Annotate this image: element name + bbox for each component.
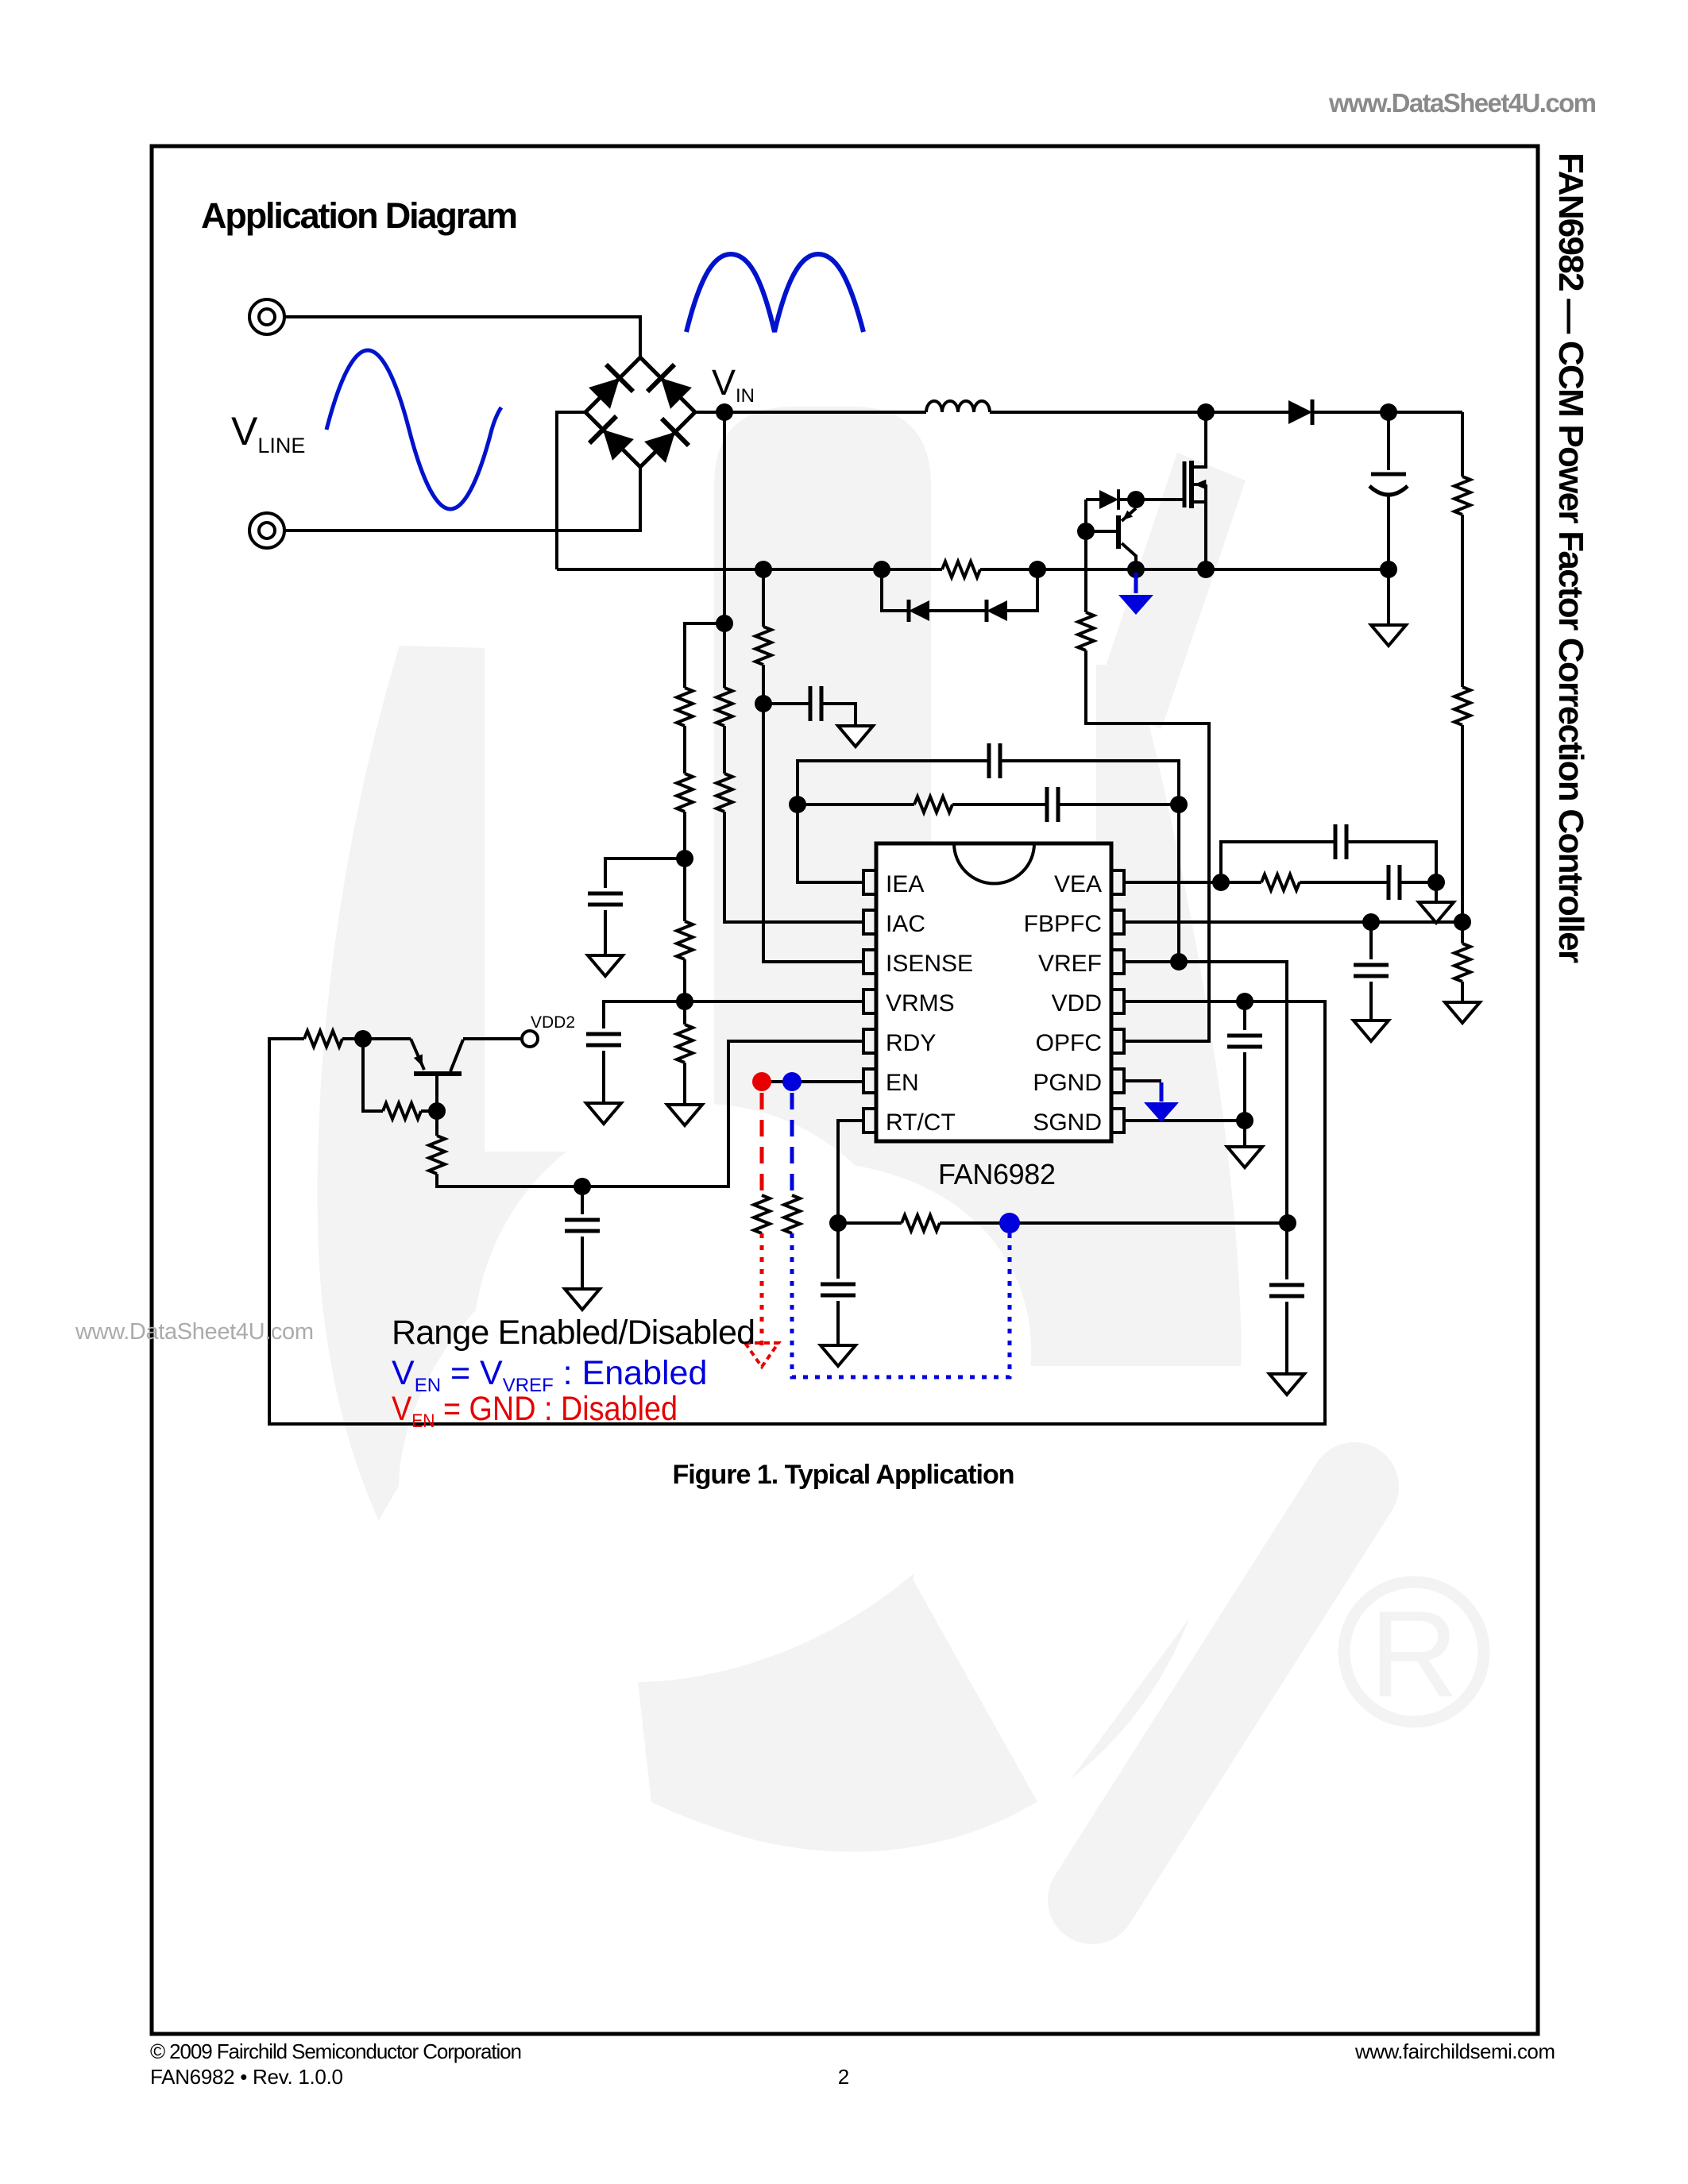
page frame	[152, 146, 1538, 2034]
watermark registered mark	[1344, 1582, 1484, 1723]
svg-text:www.DataSheet4U.com: www.DataSheet4U.com	[1328, 88, 1597, 118]
ground VEA	[1419, 902, 1454, 923]
node RDY cap	[574, 1178, 591, 1195]
resistor Riac2	[717, 774, 732, 812]
capacitor Cref	[1269, 1285, 1304, 1296]
node VIN	[716, 403, 733, 421]
pin VRMS box	[863, 990, 876, 1013]
wire VIN node to left divider	[685, 623, 724, 1105]
resistor Riac1	[717, 688, 732, 726]
capacitor Cvr1	[588, 893, 623, 905]
capacitor Crdy	[565, 1220, 600, 1231]
pin FBPFC box	[1111, 910, 1124, 934]
pin IAC box	[863, 910, 876, 934]
resistor Re2	[784, 1195, 800, 1233]
wire bridge left corner to bus	[557, 412, 585, 569]
wire gate diode to gate node	[1118, 500, 1136, 508]
diode D7 bypass	[987, 600, 1007, 622]
transistor Q2 emitter	[1122, 508, 1136, 521]
resistor Rvr1	[677, 688, 693, 726]
node VREF-RT	[1279, 1214, 1296, 1232]
resistor Rc	[304, 1031, 342, 1047]
diode D6 bypass	[909, 600, 929, 622]
node VDD cap	[1236, 993, 1253, 1010]
pin VDD box	[1111, 990, 1124, 1013]
node left divider mid	[676, 850, 693, 867]
svg-text:VDD2: VDD2	[531, 1013, 575, 1032]
node VEA left	[1212, 874, 1230, 891]
node FBPFC divider	[1454, 913, 1471, 931]
wire Q3 base network	[363, 1039, 437, 1136]
svg-text:VLINE: VLINE	[231, 409, 305, 457]
transistor Q2 base wire	[1086, 530, 1118, 533]
node IEA comp left	[789, 796, 806, 813]
node bus 4	[1127, 561, 1145, 578]
wire PGND stub	[1124, 1079, 1161, 1082]
mosfet Q1 arrow	[1194, 480, 1206, 490]
wire EN	[762, 1080, 863, 1083]
node Q3 base	[428, 1102, 446, 1120]
terminal T2	[249, 513, 284, 548]
node VEA right	[1427, 874, 1445, 891]
node bus 5	[1197, 561, 1215, 578]
svg-text:R: R	[1369, 1585, 1458, 1723]
wire RT/CT cap	[836, 1223, 840, 1345]
pin VREF box	[1111, 950, 1124, 974]
ground Cvr1	[588, 955, 623, 976]
blue dashed enable line	[790, 1093, 794, 1194]
svg-text:VRMS: VRMS	[886, 990, 955, 1017]
resistor Ri IEA	[914, 797, 952, 812]
node Rc-Q3	[354, 1030, 372, 1048]
EN blue node	[782, 1072, 802, 1091]
wire VDD cap	[1243, 1001, 1246, 1147]
ground SGND	[1227, 1147, 1262, 1167]
node bus 2	[873, 561, 890, 578]
bridge diode D3 lower-left	[589, 416, 636, 463]
svg-text:SGND: SGND	[1033, 1109, 1102, 1136]
transistor Q3 arrow	[414, 1054, 427, 1068]
wire isense filter cap	[763, 704, 856, 726]
svg-text:Figure 1. Typical Application: Figure 1. Typical Application	[673, 1460, 1015, 1490]
red dashed arrow	[745, 1343, 778, 1367]
wire opfc base resistor	[1086, 500, 1209, 1041]
svg-text:www.DataSheet4U.com: www.DataSheet4U.com	[75, 1319, 314, 1345]
svg-text:Application Diagram: Application Diagram	[201, 195, 518, 236]
svg-text:OPFC: OPFC	[1036, 1030, 1102, 1056]
node VREF-IEA	[1170, 953, 1188, 970]
capacitor Cvr2	[586, 1034, 621, 1045]
resistor Ro2	[1454, 687, 1470, 725]
boost diode D5	[1288, 399, 1312, 425]
transistor Q2 collector	[1122, 543, 1136, 569]
pin RT/CT box	[863, 1109, 876, 1133]
blue dotted enable line	[792, 1233, 1010, 1377]
capacitor Cfb	[1354, 965, 1389, 976]
svg-text:VEA: VEA	[1054, 871, 1102, 897]
transistor Q3 base lead	[435, 1074, 438, 1111]
wire T1 to bridge top	[284, 317, 640, 357]
capacitor Cv2 VEA	[1389, 865, 1400, 900]
transistor Q3 collector diagonal	[450, 1040, 463, 1071]
wire RDY cap	[581, 1187, 584, 1289]
terminal T1	[249, 299, 284, 334]
svg-text:FAN6982: FAN6982	[938, 1158, 1056, 1190]
wire VIN vertical to IAC divider	[724, 412, 863, 922]
resistor Rvr3	[677, 921, 693, 959]
wire bridge right corner to VIN node	[695, 411, 724, 414]
transistor Q2 base bar	[1116, 515, 1121, 549]
resistor Rvr2	[677, 774, 693, 812]
svg-text:RT/CT: RT/CT	[886, 1109, 956, 1136]
svg-text:FBPFC: FBPFC	[1024, 911, 1102, 937]
watermark logo right arm extension	[1095, 453, 1246, 729]
resistor Rsf	[755, 627, 771, 665]
inductor L1	[926, 401, 990, 412]
node gate	[1127, 491, 1145, 508]
resistor Rv VEA	[1261, 874, 1300, 890]
svg-text:VREF: VREF	[1038, 951, 1102, 977]
mosfet Q1 drain	[1192, 412, 1206, 467]
ground Cvr2	[586, 1103, 621, 1124]
node IEA comp right	[1170, 796, 1188, 813]
svg-text:VIN: VIN	[712, 362, 755, 407]
blue rectified sine VIN	[686, 254, 863, 332]
red dashed enable line	[760, 1093, 764, 1194]
bridge diode D1 upper-left	[586, 365, 633, 411]
FAN6982 IC body	[876, 843, 1111, 1141]
resistor Rs sense	[942, 561, 980, 577]
wire VDD row	[269, 1001, 1325, 1424]
ground Crdy	[565, 1289, 600, 1310]
bridge rectifier diamond	[585, 357, 695, 467]
resistor Rb1	[383, 1103, 421, 1119]
node SGND	[1236, 1112, 1253, 1129]
bus current sense rail	[557, 568, 1389, 571]
blue ground arrow PGND	[1160, 1082, 1164, 1102]
bridge diode D4 lower-right	[642, 419, 689, 465]
node VIN divider tap	[716, 615, 733, 632]
capacitor Ct	[821, 1284, 856, 1295]
ground Cfb	[1354, 1021, 1389, 1041]
ground Cref	[1269, 1374, 1304, 1395]
blue current arrow 1	[1134, 573, 1138, 593]
ground Rvr4	[667, 1105, 702, 1125]
red dotted enable line	[760, 1233, 764, 1345]
ground Ct	[821, 1345, 856, 1366]
mosfet Q1 source	[1192, 484, 1206, 569]
bridge diode D2 upper-right	[647, 365, 694, 411]
pin ISENSE box	[863, 950, 876, 974]
pin EN box	[863, 1069, 876, 1093]
mosfet Q1 channel bar	[1189, 461, 1194, 508]
capacitor Ci2 IEA	[1047, 787, 1058, 822]
blue node RT	[999, 1213, 1020, 1233]
watermark white left channel	[485, 604, 714, 1152]
resistor Rt	[902, 1215, 940, 1231]
pin RDY box	[863, 1029, 876, 1053]
watermark white hole	[473, 1104, 933, 1596]
wire FBPFC row	[1124, 920, 1462, 924]
ground Ro3	[1445, 1002, 1480, 1023]
svg-text:IEA: IEA	[886, 871, 924, 897]
IC notch	[954, 843, 1034, 884]
svg-text:VEN = GND : Disabled: VEN = GND : Disabled	[392, 1390, 678, 1432]
resistor Re1	[754, 1195, 770, 1233]
ground Csf	[838, 726, 873, 747]
node bus 3	[1029, 561, 1046, 578]
mosfet Q1 body stub	[1192, 483, 1206, 486]
transistor Q2 arrow	[1120, 511, 1134, 523]
resistor Rg opfc	[1078, 612, 1094, 650]
wire RDY loop	[437, 1041, 863, 1187]
EN red node	[752, 1072, 771, 1091]
wire SGND row	[1124, 1119, 1245, 1122]
wire Q3 collector to VDD2	[463, 1037, 521, 1040]
svg-text:© 2009 Fairchild Semiconductor: © 2009 Fairchild Semiconductor Corporati…	[150, 2039, 522, 2063]
pin VEA box	[1111, 870, 1124, 894]
watermark white right channel	[931, 604, 1096, 1136]
blue sine VLINE	[326, 350, 501, 509]
svg-text:ISENSE: ISENSE	[886, 951, 973, 977]
pin SGND box	[1111, 1109, 1124, 1133]
pin PGND box	[1111, 1069, 1124, 1093]
node FBPFC cap	[1362, 913, 1380, 931]
diode D8 gate	[1099, 489, 1118, 510]
node Q2 base	[1077, 523, 1095, 540]
transistor Q3 base bar	[414, 1071, 462, 1076]
svg-text:Range Enabled/Disabled: Range Enabled/Disabled	[392, 1314, 755, 1352]
capacitor Csf	[810, 686, 821, 721]
ground Cout	[1371, 625, 1406, 646]
transistor Q3 emitter diagonal	[411, 1039, 424, 1070]
svg-text:FAN6982 — CCM Power Factor Cor: FAN6982 — CCM Power Factor Correction Co…	[1551, 152, 1590, 963]
wire top rail VIN to inductor	[724, 411, 926, 414]
node RT/CT	[829, 1214, 847, 1232]
wire VREF row	[1124, 962, 1287, 1374]
mosfet Q1 gate bar	[1183, 461, 1187, 507]
svg-text:VDD: VDD	[1052, 990, 1102, 1017]
svg-text:IAC: IAC	[886, 911, 925, 937]
svg-text:EN: EN	[886, 1070, 919, 1096]
resistor Rvr4	[677, 1024, 693, 1063]
diode D8 gate anode wire	[1086, 498, 1100, 501]
watermark center band	[714, 407, 931, 1185]
wire VRMS row	[604, 1001, 863, 1103]
wire Rc to Q3 emitter	[342, 1037, 411, 1040]
svg-text:PGND: PGND	[1033, 1070, 1102, 1096]
wire inductor to boost diode	[990, 411, 1288, 414]
pin IEA box	[863, 870, 876, 894]
wire IEA compensation	[798, 761, 1179, 962]
watermark white slash	[914, 1366, 1323, 1815]
terminal VDD2	[522, 1031, 538, 1047]
svg-text:RDY: RDY	[886, 1030, 936, 1056]
capacitor Cv1 VEA	[1335, 824, 1346, 859]
capacitor Cout curved plate	[1369, 486, 1408, 495]
watermark logo tail stroke	[1092, 1487, 1354, 1900]
svg-text:2: 2	[838, 2065, 849, 2089]
resistor Rb2	[429, 1136, 445, 1174]
wire T2 to bridge bottom	[284, 467, 640, 531]
capacitor Cout wires	[1387, 412, 1390, 625]
node output cap top	[1380, 403, 1397, 421]
node mosfet drain	[1197, 403, 1215, 421]
capacitor Cout top plate	[1371, 473, 1406, 477]
resistor Ro3	[1454, 943, 1470, 982]
watermark fairchild logo ring	[318, 646, 1242, 1852]
svg-text:www.fairchildsemi.com: www.fairchildsemi.com	[1354, 2039, 1555, 2063]
wire gate	[1136, 498, 1184, 501]
svg-text:FAN6982 • Rev. 1.0.0: FAN6982 • Rev. 1.0.0	[150, 2065, 343, 2089]
node bus 6	[1380, 561, 1397, 578]
wire FBPFC cap	[1369, 922, 1373, 1021]
node bus 1	[755, 561, 772, 578]
wire VRMS filter cap 1	[605, 859, 685, 955]
resistor Ro1	[1454, 477, 1470, 515]
wire RT/CT	[838, 1121, 1288, 1223]
capacitor Ci1 IEA	[989, 743, 1000, 778]
wire output divider	[1461, 412, 1464, 1002]
pin OPFC box	[1111, 1029, 1124, 1053]
capacitor Cvdd	[1227, 1036, 1262, 1047]
wire isense filter	[763, 569, 863, 962]
node VRMS tap	[676, 993, 693, 1010]
wire boost diode to output	[1312, 411, 1462, 414]
node isense mid	[755, 695, 772, 712]
wire bypass diode branch	[882, 569, 1037, 611]
wire VEA compensation	[1124, 842, 1436, 905]
